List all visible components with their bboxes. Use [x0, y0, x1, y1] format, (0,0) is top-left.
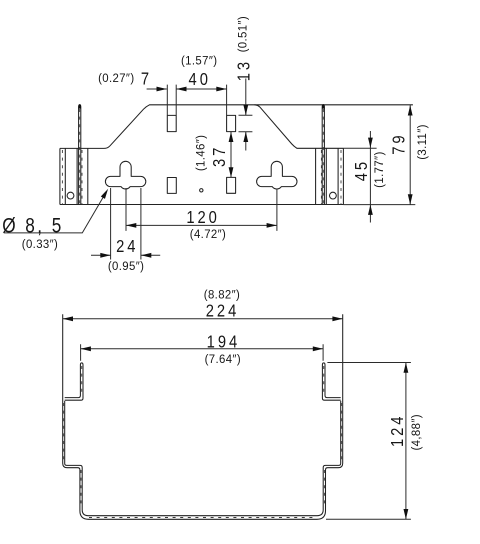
- svg-text:(3.11″): (3.11″): [416, 124, 429, 160]
- svg-text:45: 45: [352, 159, 372, 181]
- svg-text:124: 124: [388, 414, 408, 447]
- svg-text:40: 40: [189, 70, 211, 90]
- svg-text:Ø 8, 5: Ø 8, 5: [2, 215, 64, 238]
- svg-text:(0.95″): (0.95″): [108, 260, 144, 273]
- svg-text:(0.51″): (0.51″): [236, 16, 249, 52]
- svg-text:120: 120: [186, 208, 219, 228]
- svg-text:(1.57″): (1.57″): [181, 54, 217, 67]
- svg-text:24: 24: [116, 237, 138, 257]
- svg-text:(1.77″): (1.77″): [373, 151, 386, 187]
- svg-text:(8.82″): (8.82″): [204, 288, 240, 301]
- svg-text:(7.64″): (7.64″): [205, 353, 241, 366]
- svg-text:79: 79: [389, 132, 409, 154]
- svg-text:(4,88″): (4,88″): [410, 414, 423, 450]
- svg-text:7: 7: [141, 69, 152, 89]
- svg-text:(0.33″): (0.33″): [22, 238, 58, 251]
- svg-text:224: 224: [206, 301, 239, 321]
- svg-text:(0.27″): (0.27″): [98, 72, 134, 85]
- svg-text:(4.72″): (4.72″): [190, 228, 226, 241]
- svg-text:(1.46″): (1.46″): [194, 135, 207, 171]
- svg-text:13: 13: [234, 59, 254, 81]
- svg-text:194: 194: [207, 332, 240, 352]
- svg-text:37: 37: [210, 145, 230, 167]
